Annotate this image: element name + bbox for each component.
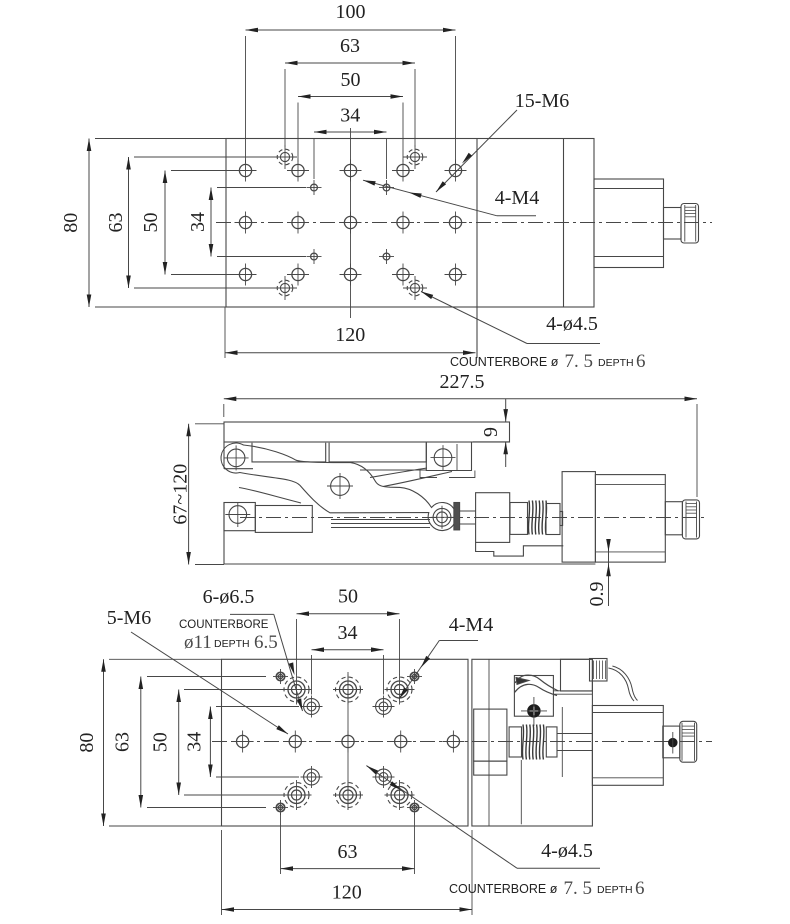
bottom view: connector — [590, 659, 608, 682]
side view: dim 9 — [505, 399, 507, 422]
top view: M6 tapped hole r3c4 — [397, 268, 409, 280]
bottom view: dim 34 extension lines left — [216, 706, 299, 708]
bottom view: M4 hole #3 — [304, 769, 320, 785]
svg-text:6.5: 6.5 — [254, 632, 278, 653]
svg-text:34: 34 — [340, 105, 360, 127]
bottom view: knob shaft — [663, 726, 680, 758]
svg-text:ø11: ø11 — [184, 632, 212, 653]
bottom view: base plate outline — [222, 659, 469, 826]
side view: coupling tab — [560, 512, 563, 526]
top view: M6 tapped hole r3c5 — [449, 268, 461, 280]
side view: dim 9 extension line — [473, 441, 509, 443]
top view: M6 tapped hole r3c3 — [344, 268, 356, 280]
top view: dim 50 top — [298, 96, 403, 98]
svg-text:50: 50 — [341, 69, 361, 91]
side view: bracket lower lip — [420, 471, 475, 478]
svg-text:DEPTH: DEPTH — [598, 357, 634, 369]
side view: knob shaft — [665, 502, 682, 535]
bottom view: dim 63 left — [140, 677, 142, 808]
bottom view: counterbored hole 6.5 #3 — [387, 677, 412, 702]
bottom view: M6 hole center row #1 — [237, 735, 249, 747]
side view: scissor arm B lower-left stub — [239, 488, 301, 504]
svg-text:4-ø4.5: 4-ø4.5 — [541, 840, 593, 862]
side view: bottom plate bottom edge — [223, 503, 225, 565]
top view: dim 63 extension lines — [284, 69, 286, 147]
svg-text:6-ø6.5: 6-ø6.5 — [203, 586, 255, 608]
bottom view: spring arm lines to motor — [553, 690, 592, 692]
top view: leader 4-M4 — [497, 215, 536, 217]
bottom view: dim 34 extension lines — [311, 655, 313, 695]
top view: counterbored hole 4.5 #2 — [407, 149, 423, 165]
bottom view: support vertical under coupling — [520, 760, 522, 824]
side view: right roller bracket — [426, 442, 471, 471]
top view: M6 tapped hole r2c3 — [344, 216, 356, 228]
top view: vertical center column line — [350, 128, 352, 318]
bottom view: counterbored hole 6.5 #4 — [284, 783, 309, 808]
top view: counterbored hole 4.5 #4 — [407, 280, 423, 296]
svg-text:50: 50 — [140, 213, 162, 233]
svg-text:COUNTERBORE ø: COUNTERBORE ø — [449, 882, 558, 896]
bottom view: dim 63 extension lines left — [147, 676, 266, 678]
top view: leader 4-dia4.5 — [421, 292, 527, 344]
svg-text:7. 5: 7. 5 — [565, 351, 594, 372]
top view: motor block — [594, 179, 664, 268]
bottom view: M4 hole #4 — [376, 769, 392, 785]
bottom view: M4 hole #2 — [376, 699, 392, 715]
svg-text:COUNTERBORE ø: COUNTERBORE ø — [450, 355, 559, 369]
bottom view: dim 50 top — [297, 613, 400, 615]
side view: screw stub to coupling — [460, 510, 476, 512]
side view: scissor arm A — [221, 443, 456, 531]
side view: lower left slider block — [224, 503, 255, 531]
svg-text:63: 63 — [112, 732, 134, 752]
top view: base inner edge line — [563, 139, 565, 308]
top view: stage top plate outline — [226, 139, 594, 308]
bottom view: dim 120 extension lines — [221, 830, 223, 915]
top view: counterbored hole 4.5 #1 — [277, 149, 293, 165]
bottom view: M6 hole center row #3 — [342, 735, 354, 747]
top view: dim 100 extension lines — [245, 36, 247, 163]
side view: upper right pivot — [434, 449, 452, 467]
side view: rail slot 1 — [252, 443, 326, 462]
top view: knob body — [681, 204, 699, 244]
bottom view: coupling right collar — [546, 727, 557, 757]
bottom view: leader 4-dia4.5 — [517, 867, 600, 869]
svg-text:COUNTERBORE: COUNTERBORE — [179, 619, 269, 631]
bottom view: corner hole 4.5 #1 — [276, 672, 284, 680]
bottom view: horizontal centerline — [212, 741, 712, 743]
bottom view: dim 34 top — [312, 649, 384, 651]
svg-text:50: 50 — [338, 586, 358, 608]
svg-text:4-M4: 4-M4 — [495, 187, 539, 209]
top view: dim 63 left extension lines — [134, 156, 276, 158]
side view: rail bottom edge left segment — [223, 442, 225, 469]
side view: motor body — [595, 475, 665, 562]
bottom view: leader 4-M4 — [439, 640, 478, 642]
svg-text:120: 120 — [335, 324, 365, 346]
bottom view: M6 hole center row #4 — [395, 735, 407, 747]
top view: dim 34 left — [210, 188, 212, 257]
side view: dim 227.5 extension lines — [223, 404, 225, 417]
top view: M6 tapped hole r2c2 — [292, 216, 304, 228]
svg-text:80: 80 — [76, 733, 98, 753]
top view: M6 tapped hole r1c1 — [239, 164, 251, 176]
top view: leader 15-M6 — [436, 110, 517, 192]
svg-text:5-M6: 5-M6 — [107, 607, 151, 629]
top view: knob shaft — [664, 208, 682, 240]
top view: M6 tapped hole r1c5 — [449, 164, 461, 176]
bottom view: bellows coupling — [522, 725, 523, 760]
side view: coupling right collar — [546, 504, 560, 535]
svg-text:4-ø4.5: 4-ø4.5 — [546, 313, 598, 335]
side view: knob body — [682, 500, 699, 539]
side view: motor front plate — [562, 472, 595, 562]
top view: M4 tapped hole #3 — [311, 253, 318, 260]
side view: rail bottom edge right segment — [360, 469, 426, 471]
side view: coupling housing — [476, 493, 510, 543]
svg-text:34: 34 — [184, 732, 206, 752]
bottom view: dim 63 bottom — [281, 868, 415, 870]
top view: dim 120 left extension line — [224, 307, 226, 358]
bottom view: M6 hole center row #2 — [289, 735, 301, 747]
top view: M4 tapped hole #4 — [383, 253, 390, 260]
bottom view: bearing block — [474, 709, 507, 761]
bottom view: corner hole 4.5 #3 — [276, 803, 284, 811]
bottom view: dim 120 bottom — [222, 909, 473, 911]
side view: dim 0.9 — [608, 540, 610, 606]
bottom view: knob body — [680, 721, 697, 762]
top view: dim 50 left — [164, 171, 166, 275]
svg-text:63: 63 — [340, 35, 360, 57]
svg-text:6: 6 — [635, 878, 645, 899]
top view: dim 80 extension lines — [95, 138, 226, 140]
bottom view: coupling left collar — [509, 727, 521, 757]
side view: dim 67~120 — [188, 424, 190, 565]
svg-text:63: 63 — [338, 841, 358, 863]
side view: top plate — [224, 422, 510, 442]
bottom view: spring bracket — [514, 676, 553, 717]
side view: knob knurl marks — [686, 503, 697, 505]
bottom view: top bracket — [561, 659, 593, 691]
bottom view: M4 hole #1 — [304, 699, 320, 715]
side view: mount step under coupling — [476, 542, 564, 556]
side view: upper left pivot — [227, 449, 245, 467]
top view: M6 tapped hole r3c2 — [292, 268, 304, 280]
bottom view: corner hole 4.5 #2 — [410, 672, 418, 680]
top view: M6 tapped hole r1c3 — [344, 164, 356, 176]
top view: M4 tapped hole #1 — [311, 184, 318, 191]
top view: knob knurl marks — [685, 206, 696, 208]
top view: dim 34 left extension lines — [217, 187, 306, 189]
bottom view: clamp screw — [528, 705, 540, 717]
bottom view: shaft to motor — [557, 733, 592, 735]
side view: lower slot — [255, 506, 312, 533]
top view: M6 tapped hole r2c4 — [397, 216, 409, 228]
side view: center pivot — [331, 477, 350, 496]
bottom view: dim 50 extension lines — [296, 619, 298, 675]
top view: dim 34 top — [314, 131, 387, 133]
bottom view: center dot — [669, 738, 677, 746]
bottom view: counterbored hole 6.5 #1 — [284, 677, 309, 702]
svg-text:DEPTH: DEPTH — [214, 638, 250, 650]
bottom view: counterbored hole 6.5 #2 — [336, 677, 361, 702]
top view: M6 tapped hole r1c4 — [397, 164, 409, 176]
top view: M6 tapped hole r2c5 — [449, 216, 461, 228]
side view: nut bearing strip hatched — [454, 503, 460, 530]
top view: dim 50 extension lines — [297, 103, 299, 163]
bottom view: dim 50 left — [178, 690, 180, 796]
top view: platform/base boundary edge + 120 extension line — [476, 139, 478, 359]
side view: lower right pivot — [433, 508, 451, 526]
bottom view: corner hole 4.5 #4 — [410, 803, 418, 811]
top view: dim 63 top — [285, 62, 415, 64]
svg-text:15-M6: 15-M6 — [515, 90, 569, 112]
bottom view: leader 6-dia6.5 — [230, 613, 274, 615]
top view: motor block flange lines — [594, 188, 664, 190]
top view: knob silhouette lines — [684, 205, 686, 242]
svg-text:6: 6 — [636, 351, 646, 372]
side view: dim 67-120 extension lines — [195, 423, 224, 425]
top view: dim 80 left — [88, 139, 90, 308]
top view: dim 63 left — [128, 157, 130, 288]
bottom view: leaf spring — [515, 675, 559, 691]
top view: M6 tapped hole r3c1 — [239, 268, 251, 280]
svg-text:50: 50 — [150, 732, 172, 752]
bottom view: dim 63 bottom extension lines — [280, 813, 282, 874]
svg-text:34: 34 — [187, 212, 209, 232]
svg-text:80: 80 — [60, 213, 82, 233]
bottom view: counterbored hole 6.5 #5 — [336, 783, 361, 808]
bottom view: cable — [608, 668, 634, 701]
top view: M4 tapped hole #2 — [383, 184, 390, 191]
svg-text:7. 5: 7. 5 — [564, 878, 593, 899]
side view: coupling left collar — [510, 503, 528, 535]
bottom view: dim 80 left — [103, 659, 105, 826]
top view: M6 tapped hole r2c1 — [239, 216, 251, 228]
side view: lower left pivot — [229, 506, 247, 524]
svg-text:120: 120 — [332, 882, 362, 904]
side view: dim 227.5 — [224, 398, 697, 400]
top view: dim 100 — [246, 29, 456, 31]
top view: dim 120 — [225, 352, 476, 354]
svg-text:9: 9 — [480, 427, 502, 437]
bottom view: right side body — [472, 659, 593, 826]
top view: dim 50 left extension lines — [171, 170, 236, 172]
top view: M6 tapped hole r1c2 — [292, 164, 304, 176]
svg-text:67~120: 67~120 — [170, 464, 192, 525]
svg-text:0.9: 0.9 — [586, 582, 608, 607]
svg-text:4-M4: 4-M4 — [449, 614, 493, 636]
top view: horizontal centerline — [216, 222, 712, 224]
bottom view: vertical center column line — [347, 672, 349, 810]
bottom view: M6 hole center row #5 — [447, 735, 459, 747]
svg-text:63: 63 — [105, 213, 127, 233]
side view: leadscrew centerline — [240, 517, 706, 519]
bottom view: motor body — [592, 706, 663, 786]
bottom view: counterbored hole 6.5 #6 — [387, 783, 412, 808]
top view: counterbored hole 4.5 #3 — [277, 280, 293, 296]
side view: leadscrew lines — [331, 519, 430, 521]
bottom view: dim 50 extension lines left — [184, 689, 282, 691]
bottom view: dim 80 extension lines — [109, 658, 222, 660]
side view: bellows coupling — [528, 501, 529, 535]
bottom view: dim 34 left — [209, 707, 211, 778]
svg-text:100: 100 — [336, 1, 366, 23]
side view: rail slot 2 — [329, 443, 426, 462]
bottom view: leader 5-M6 — [131, 632, 288, 734]
svg-text:34: 34 — [338, 622, 358, 644]
top view: dim 34 extension lines — [313, 138, 315, 179]
svg-text:227.5: 227.5 — [440, 371, 485, 393]
bottom view: knob knurl marks — [682, 725, 695, 727]
svg-text:DEPTH: DEPTH — [597, 884, 633, 896]
